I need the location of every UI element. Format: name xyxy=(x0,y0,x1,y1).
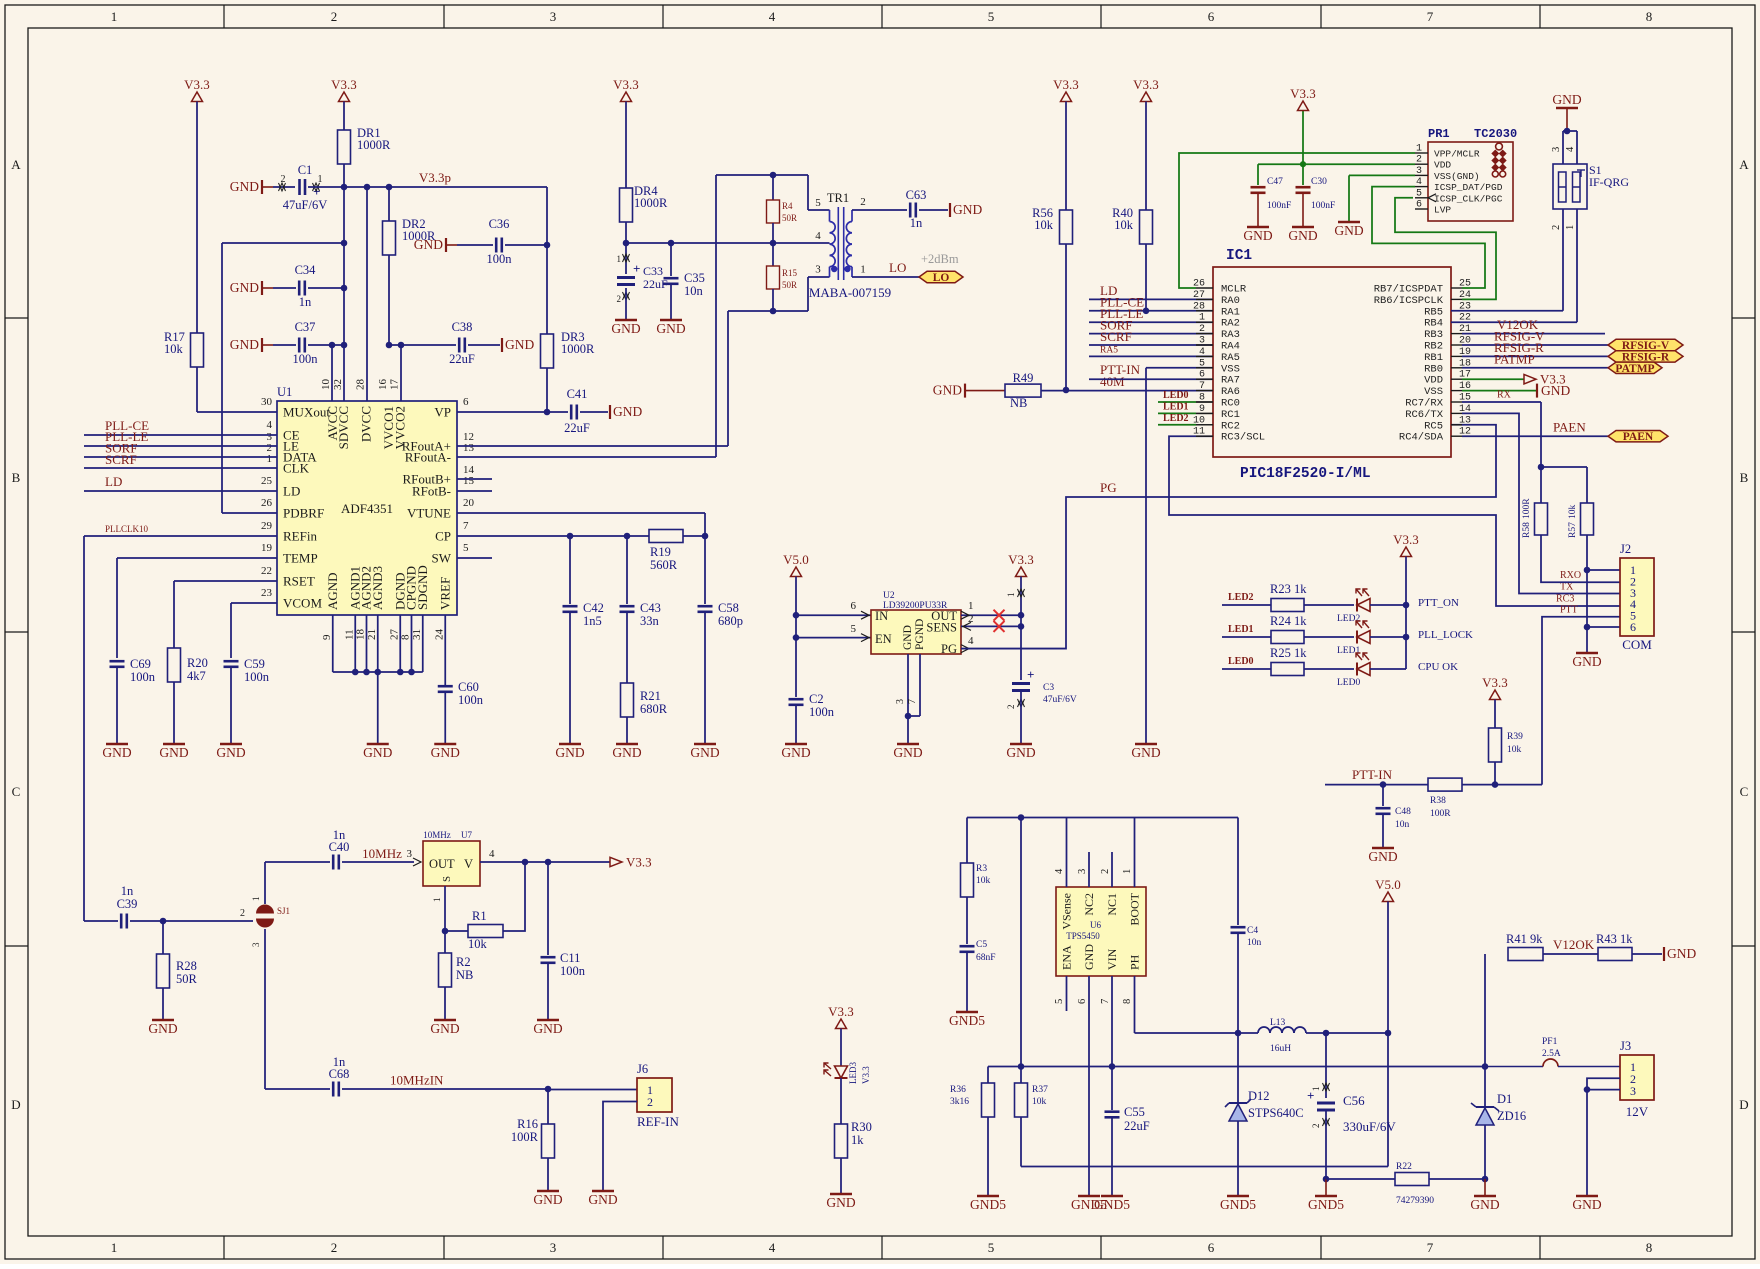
svg-text:LED2: LED2 xyxy=(1228,592,1254,603)
ground GND at R16 xyxy=(537,1190,559,1193)
svg-text:VSS: VSS xyxy=(1424,386,1443,398)
svg-text:RXO: RXO xyxy=(1560,570,1581,581)
wire VDD row green xyxy=(1258,163,1415,165)
svg-text:V5.0: V5.0 xyxy=(783,552,809,567)
svg-text:VPP/MCLR: VPP/MCLR xyxy=(1434,149,1480,160)
svg-text:47uF/6V: 47uF/6V xyxy=(1043,695,1077,705)
svg-text:DVCC: DVCC xyxy=(359,406,374,442)
svg-text:SW: SW xyxy=(432,551,452,566)
ground GND at VSS xyxy=(1135,743,1157,746)
svg-text:RC6/TX: RC6/TX xyxy=(1405,409,1444,421)
svg-text:50R: 50R xyxy=(782,280,797,290)
LED LED0 xyxy=(1357,663,1370,676)
wire PG net xyxy=(961,425,1496,649)
svg-text:4: 4 xyxy=(1565,146,1576,152)
net stub LED2 to R23 xyxy=(1222,604,1271,606)
svg-text:C37: C37 xyxy=(295,320,316,334)
wire 12V input rail xyxy=(988,1066,1485,1068)
ground GND at C36 xyxy=(445,238,447,252)
svg-text:A: A xyxy=(11,157,21,172)
svg-text:50R: 50R xyxy=(176,972,198,986)
wire S1 pins 3 4 tie xyxy=(1563,130,1577,132)
svg-text:GND: GND xyxy=(430,1021,459,1036)
ground GND at R2 xyxy=(434,1019,456,1022)
stub RFoutB+ pin 14 xyxy=(457,478,492,480)
svg-text:REFin: REFin xyxy=(283,529,317,544)
svg-text:C39: C39 xyxy=(117,897,138,911)
svg-text:2: 2 xyxy=(331,1240,338,1255)
svg-text:TR1: TR1 xyxy=(827,191,849,205)
svg-text:47uF/6V: 47uF/6V xyxy=(283,198,327,212)
svg-text:R28: R28 xyxy=(176,959,197,973)
svg-text:PGND: PGND xyxy=(914,619,926,650)
svg-text:R36: R36 xyxy=(950,1085,966,1095)
svg-text:100R: 100R xyxy=(1522,498,1532,519)
capacitor C60 100n xyxy=(438,685,453,688)
svg-text:26: 26 xyxy=(261,497,273,509)
net wire V12OK from RB3 xyxy=(1462,333,1605,335)
svg-text:1: 1 xyxy=(267,453,273,465)
wire ICSP VSS green to ground xyxy=(1349,174,1415,176)
svg-text:C: C xyxy=(1740,784,1749,799)
svg-text:C43: C43 xyxy=(640,601,661,615)
svg-text:REF-IN: REF-IN xyxy=(637,1114,680,1129)
svg-text:V3.3: V3.3 xyxy=(613,77,639,92)
wire PLLCLK10 vertical to C39 xyxy=(84,920,118,922)
wire PDBRF net xyxy=(222,242,344,244)
svg-text:CLK: CLK xyxy=(283,461,310,476)
net wire PATMP from RB0 xyxy=(1462,367,1608,369)
svg-text:23: 23 xyxy=(261,587,273,599)
svg-text:VDD: VDD xyxy=(1424,375,1443,387)
svg-text:2: 2 xyxy=(1006,705,1016,710)
svg-text:3k16: 3k16 xyxy=(950,1097,969,1107)
power V3.3 symbol (R56) xyxy=(1061,92,1072,102)
power V3.3 symbol (U2 out) xyxy=(1016,567,1027,577)
resistor R49 NB xyxy=(1005,384,1041,397)
ground GND at R43 xyxy=(1663,947,1665,961)
svg-text:V3.3: V3.3 xyxy=(1008,552,1034,567)
svg-text:2: 2 xyxy=(240,908,245,919)
wire L13 to V5 node xyxy=(1306,1032,1388,1034)
wire J6 pin 2 to ground xyxy=(603,1102,637,1192)
ground GND at C2 xyxy=(785,743,807,746)
wire TX from RC6 pin 14 to J2 pin 3 xyxy=(1462,413,1620,593)
wire VSS pin 5 to ground xyxy=(1146,367,1213,369)
wire V3.3 to VDD green xyxy=(1302,110,1304,164)
svg-text:PLL_LOCK: PLL_LOCK xyxy=(1418,629,1473,641)
svg-text:VSS(GND): VSS(GND) xyxy=(1434,171,1480,182)
svg-text:6: 6 xyxy=(463,396,469,408)
wire V3.3p down to DR3 xyxy=(546,187,548,334)
svg-text:R22: R22 xyxy=(1396,1162,1412,1172)
svg-text:22uF: 22uF xyxy=(1124,1119,1150,1133)
U1 top pin names xyxy=(325,406,408,449)
ground GND at C34 xyxy=(261,281,263,295)
svg-text:29: 29 xyxy=(261,520,273,532)
svg-text:C30: C30 xyxy=(1311,177,1327,187)
svg-text:18: 18 xyxy=(355,629,367,641)
flag PATMP xyxy=(1608,362,1662,373)
svg-text:4: 4 xyxy=(1416,177,1422,188)
wire VSense divider vertical xyxy=(1020,818,1022,1084)
svg-text:SDGND: SDGND xyxy=(415,565,430,610)
svg-text:D12: D12 xyxy=(1248,1089,1270,1103)
svg-text:NC1: NC1 xyxy=(1105,893,1119,916)
svg-text:J6: J6 xyxy=(637,1062,648,1076)
wire VSense/BOOT top rail xyxy=(967,817,1238,819)
wire V5.0 to U2 inputs xyxy=(795,577,797,698)
resistor R28 50R xyxy=(162,921,164,954)
PR1 pin 5 arrow xyxy=(1428,194,1436,202)
svg-text:J3: J3 xyxy=(1620,1039,1631,1053)
resistor R37 10k xyxy=(1015,1083,1028,1117)
svg-text:GND: GND xyxy=(1541,383,1570,398)
svg-text:R19: R19 xyxy=(650,545,671,559)
wire J2 pin6 stub xyxy=(1587,626,1620,628)
svg-text:D: D xyxy=(11,1097,20,1112)
connector PR1 TC2030 body xyxy=(1428,142,1513,221)
resistor R23 1k xyxy=(1271,599,1304,612)
svg-text:VCOM: VCOM xyxy=(283,596,322,611)
ground GND5 at D12 xyxy=(1227,1195,1249,1198)
svg-text:GND: GND xyxy=(611,321,640,336)
svg-text:RA5: RA5 xyxy=(1221,352,1240,364)
svg-text:STPS640C: STPS640C xyxy=(1248,1106,1304,1120)
svg-text:C3: C3 xyxy=(1043,683,1054,693)
net stub LED1 to RC1 xyxy=(1158,412,1196,414)
svg-text:100n: 100n xyxy=(244,670,270,684)
svg-text:ICSP_CLK/PGC: ICSP_CLK/PGC xyxy=(1434,193,1503,204)
ground GND at U2 xyxy=(897,743,919,746)
net wire PTT-IN bottom xyxy=(1325,784,1428,786)
svg-text:U6: U6 xyxy=(1090,920,1101,930)
ground GND at J3 xyxy=(1576,1195,1598,1198)
svg-text:GND: GND xyxy=(363,745,392,760)
wire V5.0 vertical xyxy=(1387,902,1389,1167)
svg-text:V3.3: V3.3 xyxy=(1482,675,1508,690)
svg-text:V3.3: V3.3 xyxy=(861,1066,871,1084)
node V3.3p rail xyxy=(341,184,348,191)
svg-text:C38: C38 xyxy=(452,320,473,334)
capacitor C40 1n xyxy=(332,855,335,870)
power V5.0 symbol (buck output) xyxy=(1383,892,1394,902)
net wire SORF to RA3 xyxy=(1089,333,1213,335)
svg-text:RA5: RA5 xyxy=(1100,346,1118,356)
svg-text:1n: 1n xyxy=(299,295,312,309)
wire TR1 pin 1 LO output xyxy=(852,276,919,278)
resistor R40 10k xyxy=(1140,210,1153,244)
svg-text:B: B xyxy=(1740,470,1749,485)
svg-text:C48: C48 xyxy=(1395,807,1411,817)
svg-text:RB0: RB0 xyxy=(1424,363,1443,375)
U6 bottom pin stubs xyxy=(1066,976,1068,1011)
svg-text:R24 1k: R24 1k xyxy=(1270,614,1307,628)
wire transformer bottom row xyxy=(728,310,808,312)
svg-text:1k: 1k xyxy=(851,1133,864,1147)
svg-text:GND: GND xyxy=(656,321,685,336)
oscillator U7 body xyxy=(423,841,480,886)
svg-text:12V: 12V xyxy=(1626,1104,1649,1119)
ground GND at C33 xyxy=(615,319,637,322)
svg-text:V3.3: V3.3 xyxy=(626,855,652,870)
net stub LED1 to R24 xyxy=(1222,636,1271,638)
svg-text:RB1: RB1 xyxy=(1424,352,1443,364)
wire R1 feedback xyxy=(503,862,525,931)
wire VCOM to C59 xyxy=(231,602,277,604)
svg-text:C63: C63 xyxy=(906,188,927,202)
wire V3.3 to DR4 xyxy=(625,102,627,189)
svg-text:21: 21 xyxy=(366,629,378,640)
svg-text:ENA: ENA xyxy=(1060,945,1074,970)
power V3.3 symbol (DR4) xyxy=(621,92,632,102)
svg-text:PATMP: PATMP xyxy=(1615,363,1654,375)
flag LO xyxy=(919,271,963,282)
wire ICSP_CLK green to RB6 xyxy=(1395,198,1496,300)
wire VREF to C60 xyxy=(444,615,446,686)
svg-text:GND: GND xyxy=(893,745,922,760)
IC U6 TPS5450 body xyxy=(1056,887,1146,976)
svg-text:2: 2 xyxy=(1416,155,1422,166)
svg-text:30: 30 xyxy=(261,396,273,408)
LED LED3 xyxy=(835,1066,848,1078)
svg-text:4: 4 xyxy=(489,848,495,860)
svg-text:10k: 10k xyxy=(468,937,488,951)
power V3.3 symbol (LED rail) xyxy=(1401,547,1412,557)
svg-text:D: D xyxy=(1739,1097,1748,1112)
svg-text:PG: PG xyxy=(941,642,957,656)
connector J3 12V body xyxy=(1620,1055,1654,1100)
svg-text:R20: R20 xyxy=(187,656,208,670)
wire R43 to ground xyxy=(1632,953,1662,955)
svg-text:3: 3 xyxy=(1630,1084,1636,1098)
svg-text:4: 4 xyxy=(769,1240,776,1255)
U6 top pin stubs xyxy=(1066,818,1068,888)
svg-text:RX: RX xyxy=(1497,390,1512,401)
ground GND5 at C5 xyxy=(956,1011,978,1014)
wire TR1 pin 2 to C63 xyxy=(852,209,907,211)
svg-text:CP: CP xyxy=(435,529,451,544)
svg-text:5: 5 xyxy=(988,9,995,24)
svg-text:RA3: RA3 xyxy=(1221,329,1240,341)
svg-text:GND: GND xyxy=(1667,946,1696,961)
wire R17 to MUXout pin 30 xyxy=(196,367,198,412)
resistor R38 100R xyxy=(1428,778,1462,791)
capacitor C47 100nF xyxy=(1257,164,1259,185)
svg-text:GND: GND xyxy=(533,1021,562,1036)
svg-text:GND5: GND5 xyxy=(970,1197,1006,1212)
ground GND at C69 xyxy=(106,743,128,746)
svg-text:10MHz: 10MHz xyxy=(362,846,402,861)
svg-text:PTT_ON: PTT_ON xyxy=(1418,597,1459,609)
svg-text:2: 2 xyxy=(281,174,286,185)
svg-text:LED2: LED2 xyxy=(1163,413,1189,424)
svg-text:RB4: RB4 xyxy=(1424,318,1443,330)
ground GND at R20 xyxy=(163,743,185,746)
svg-text:RC0: RC0 xyxy=(1221,398,1240,410)
svg-text:1: 1 xyxy=(111,9,118,24)
resistor R39 10k xyxy=(1494,700,1496,729)
svg-text:GND: GND xyxy=(533,1192,562,1207)
wire LED V3.3 rail xyxy=(1405,557,1407,670)
svg-text:1: 1 xyxy=(111,1240,118,1255)
resistor R2 NB xyxy=(444,931,446,953)
svg-text:1n: 1n xyxy=(121,884,134,898)
svg-text:5: 5 xyxy=(1416,188,1422,199)
ferrite R22 74279390 xyxy=(1395,1173,1429,1186)
resistor DR1 xyxy=(338,130,351,164)
svg-text:10k: 10k xyxy=(976,876,991,886)
svg-text:RB2: RB2 xyxy=(1424,341,1443,353)
svg-text:GND: GND xyxy=(902,625,914,650)
svg-text:U1: U1 xyxy=(277,385,292,399)
wire VSS pin 16 to GND xyxy=(1462,390,1537,392)
svg-text:GND: GND xyxy=(953,202,982,217)
svg-text:C55: C55 xyxy=(1124,1105,1145,1119)
connector J2 COM body xyxy=(1620,558,1654,636)
svg-text:100n: 100n xyxy=(293,352,319,366)
net wire LD to RA0 xyxy=(1089,298,1213,300)
capacitor C39 1n xyxy=(120,914,123,929)
svg-text:R39: R39 xyxy=(1507,732,1523,742)
svg-text:RC4/SDA: RC4/SDA xyxy=(1399,432,1444,444)
net wire RA5 xyxy=(1089,355,1213,357)
wire U2 OUT pin 1 xyxy=(961,614,1021,616)
svg-text:GND: GND xyxy=(505,337,534,352)
capacitor C11 100n xyxy=(547,862,549,955)
svg-text:SCRF: SCRF xyxy=(105,452,137,467)
svg-text:6: 6 xyxy=(1208,1240,1215,1255)
svg-text:2: 2 xyxy=(617,294,622,304)
svg-text:1000R: 1000R xyxy=(357,138,391,152)
svg-text:10k: 10k xyxy=(164,342,184,356)
frame row ticks and labels xyxy=(5,157,1755,1112)
svg-text:AGND3: AGND3 xyxy=(370,566,385,610)
svg-text:1: 1 xyxy=(1565,225,1576,230)
svg-text:VSense: VSense xyxy=(1060,893,1074,930)
svg-text:6: 6 xyxy=(1630,620,1636,634)
wire 40M net to RA6 pin 7 xyxy=(1041,390,1213,392)
wire V3.3 regulator output xyxy=(1020,577,1022,681)
svg-text:100R: 100R xyxy=(511,1130,539,1144)
net stub LED0 to RC0 xyxy=(1158,401,1196,403)
svg-text:PH: PH xyxy=(1128,954,1142,970)
svg-text:RB7/ICSPDAT: RB7/ICSPDAT xyxy=(1374,284,1443,296)
resistor R57 10k xyxy=(1586,467,1588,503)
resistor R17 xyxy=(191,333,204,367)
svg-text:IN: IN xyxy=(875,609,888,623)
net wire PAEN from RC4 pin 12 xyxy=(1462,435,1608,437)
wire R56 to 40M net xyxy=(1065,244,1067,390)
diode D1 ZD16 zener xyxy=(1484,1067,1486,1108)
wire RFoutA+ pin 12 to transformer xyxy=(457,445,728,447)
svg-text:R49: R49 xyxy=(1013,371,1034,385)
resistor R15 50R xyxy=(770,240,777,247)
svg-text:V3.3: V3.3 xyxy=(1393,532,1419,547)
power V5.0 symbol (U2) xyxy=(791,567,802,577)
svg-text:15: 15 xyxy=(463,475,475,487)
svg-text:1: 1 xyxy=(1416,144,1422,155)
resistor R41 9k xyxy=(1484,954,1486,1067)
capacitor C4 10n xyxy=(1237,818,1239,926)
resistor R3 10k xyxy=(966,818,968,864)
capacitor C55 22uF xyxy=(1109,1063,1116,1070)
svg-text:IF-QRG: IF-QRG xyxy=(1589,175,1629,189)
svg-text:3: 3 xyxy=(407,848,413,860)
wire R40 to PLL-CE net xyxy=(1145,244,1147,311)
wire U7 pin 4 output xyxy=(480,861,610,863)
svg-text:R57: R57 xyxy=(1568,522,1578,538)
svg-text:PIC18F2520-I/ML: PIC18F2520-I/ML xyxy=(1240,466,1371,482)
svg-text:VVCO2: VVCO2 xyxy=(392,406,407,449)
net wire SORF to DATA xyxy=(84,456,277,458)
svg-text:100n: 100n xyxy=(458,693,484,707)
svg-text:+: + xyxy=(1307,1088,1314,1103)
svg-text:PAEN: PAEN xyxy=(1623,431,1654,443)
capacitor C63 1n xyxy=(909,203,912,218)
net wire PLLCLK10 to REFin xyxy=(84,535,277,537)
solder jumper SJ1 xyxy=(256,905,274,914)
wire U2 SENS pin 2 xyxy=(961,625,1021,627)
svg-text:ICSP_DAT/PGD: ICSP_DAT/PGD xyxy=(1434,182,1503,193)
svg-text:LED0: LED0 xyxy=(1228,656,1254,667)
ground GND at C37 xyxy=(261,338,263,352)
net wire PTT-IN to RA7 pin 6 xyxy=(1089,378,1213,380)
capacitor C37 100n xyxy=(273,344,296,346)
wire DR3 to VP pin xyxy=(546,368,548,412)
svg-text:5: 5 xyxy=(1054,999,1065,1004)
svg-text:10: 10 xyxy=(320,379,332,391)
power V3.3 symbol (PR1 VDD) xyxy=(1298,101,1309,111)
svg-text:9: 9 xyxy=(321,634,333,640)
resistor DR3 xyxy=(541,334,554,368)
ground GND at PR1 VSS xyxy=(1338,221,1360,224)
svg-text:1000R: 1000R xyxy=(561,342,595,356)
ground GND at C35 xyxy=(660,319,682,322)
svg-text:V3.3: V3.3 xyxy=(331,77,357,92)
svg-text:C: C xyxy=(12,784,21,799)
ground GND at AGND bus xyxy=(367,743,389,746)
wire TEMP to C69 xyxy=(117,557,277,559)
svg-text:GND: GND xyxy=(230,179,259,194)
svg-text:RC3/SCL: RC3/SCL xyxy=(1221,432,1265,444)
svg-text:3: 3 xyxy=(1077,869,1088,874)
power V3.3 symbol (R40) xyxy=(1141,92,1152,102)
transformer TR1 MABA-007159 xyxy=(809,191,891,300)
svg-text:10n: 10n xyxy=(684,284,704,298)
svg-text:RC2: RC2 xyxy=(1221,420,1240,432)
capacitor C30 100nF xyxy=(1302,164,1304,185)
capacitor C68 1n xyxy=(332,1082,335,1097)
wire RC3/SCL to J2 pin 4 xyxy=(1169,436,1620,606)
svg-text:1n: 1n xyxy=(910,216,923,230)
svg-text:GND: GND xyxy=(1243,228,1272,243)
U1 right pin names xyxy=(402,405,452,566)
wire R58 to RXO J2 pin 2 xyxy=(1541,535,1620,582)
U1 pin numbers xyxy=(261,379,475,641)
wire DVCC column xyxy=(366,187,368,401)
ground GND at C47 xyxy=(1247,226,1269,229)
wire R23 to LED2 xyxy=(1304,604,1354,606)
svg-text:8: 8 xyxy=(400,634,412,640)
svg-text:GND: GND xyxy=(933,383,962,398)
svg-text:100nF: 100nF xyxy=(1267,201,1291,211)
svg-text:PTT-IN: PTT-IN xyxy=(1352,767,1393,782)
resistor R56 10k xyxy=(1060,210,1073,244)
svg-text:50R: 50R xyxy=(782,213,797,223)
svg-text:ZD16: ZD16 xyxy=(1497,1109,1526,1123)
ground GND at D1 xyxy=(1484,1179,1486,1196)
